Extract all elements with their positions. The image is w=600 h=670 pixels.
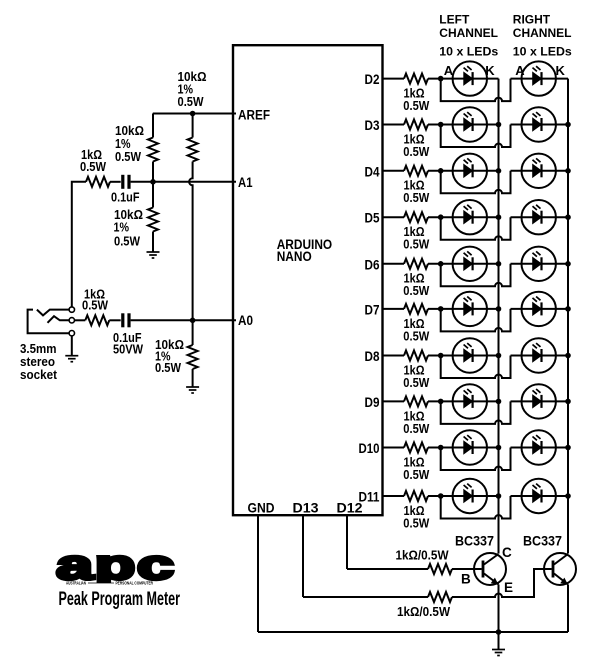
ground below R3 <box>147 252 160 258</box>
svg-text:10 x LEDs: 10 x LEDs <box>513 45 572 59</box>
wire D12 to base resistor <box>347 568 428 570</box>
node right cathode bus dot row D5 <box>565 214 571 220</box>
LED left channel row D4 <box>453 154 487 188</box>
svg-text:NANO: NANO <box>277 249 312 264</box>
node ground junction dot <box>496 629 502 635</box>
svg-text:D8: D8 <box>365 349 380 364</box>
svg-text:0.5W: 0.5W <box>403 99 429 113</box>
Q2 base bar <box>552 561 555 578</box>
wire R7 to Q1 base <box>452 568 482 570</box>
svg-text:1%: 1% <box>115 137 131 151</box>
wire D3 to resistor <box>383 124 405 126</box>
node right cathode bus dot row D6 <box>565 261 571 267</box>
svg-text:10 x LEDs: 10 x LEDs <box>439 45 498 59</box>
resistor D6 series 1k zigzag <box>404 259 428 269</box>
node anode junction dot row D10 <box>438 445 444 451</box>
svg-text:D3: D3 <box>365 118 380 133</box>
Q2 emitter <box>554 574 568 585</box>
wire anode link to right LED row D5 with hop <box>441 217 511 240</box>
resistor R6 1k 0.5W zigzag A0 <box>85 315 109 325</box>
svg-text:D4: D4 <box>365 164 380 179</box>
resistor D10 series 1k zigzag <box>404 443 428 453</box>
node right cathode bus dot row D4 <box>565 168 571 174</box>
wire resistor to left LED row D10 <box>428 447 499 449</box>
wire right LED row D6 <box>511 263 569 265</box>
LED right channel row D11 <box>522 479 556 513</box>
node right cathode bus dot row D9 <box>565 399 571 405</box>
resistor D9 series 1k zigzag <box>404 396 428 406</box>
svg-text:PERSONAL COMPUTER: PERSONAL COMPUTER <box>116 581 154 586</box>
LED right channel row D2 <box>522 61 556 95</box>
node anode junction dot row D11 <box>438 493 444 499</box>
node left cathode bus dot row D6 <box>496 261 502 267</box>
svg-text:D7: D7 <box>365 302 380 317</box>
wire R6 to C2 <box>109 319 120 321</box>
LED right channel row D4 <box>522 154 556 188</box>
node AREF junction dot <box>190 111 196 117</box>
node right cathode bus dot row D8 <box>565 353 571 359</box>
node anode junction dot row D2 <box>438 76 444 82</box>
ground below R5 <box>186 387 199 393</box>
resistor D5 series 1k zigzag <box>404 212 428 222</box>
LED left channel row D3 <box>453 107 487 141</box>
wire sleeve to ground <box>71 336 73 356</box>
node left cathode bus dot row D7 <box>496 306 502 312</box>
svg-text:0.5W: 0.5W <box>403 376 429 390</box>
wire stub to ground symbol <box>498 632 500 649</box>
resistor R2 10k zigzag <box>148 138 158 162</box>
svg-text:AUSTRALIAN: AUSTRALIAN <box>66 581 86 586</box>
svg-text:0.5W: 0.5W <box>80 160 106 174</box>
svg-text:CHANNEL: CHANNEL <box>513 26 572 40</box>
wire GND pin down <box>257 515 259 632</box>
svg-text:RIGHT: RIGHT <box>513 13 551 27</box>
svg-text:3.5mm: 3.5mm <box>20 342 57 356</box>
connector CON1 3.5mm jack body <box>28 310 70 334</box>
svg-text:0.5W: 0.5W <box>115 150 141 164</box>
node anode junction dot row D6 <box>438 261 444 267</box>
svg-text:AREF: AREF <box>238 107 270 122</box>
LED left channel row D9 <box>453 384 487 418</box>
resistor D7 series 1k zigzag <box>404 304 428 314</box>
svg-text:0.5W: 0.5W <box>403 145 429 159</box>
node anode junction dot row D4 <box>438 168 444 174</box>
wire anode link to right LED row D10 with hop <box>441 448 511 471</box>
LED left channel row D5 <box>453 200 487 234</box>
wire D13 down <box>302 515 304 597</box>
transistor Q2 BC337 circle <box>544 553 576 585</box>
LED left channel row D6 <box>453 247 487 281</box>
op-amp U1 Arduino Nano module outline <box>233 45 383 515</box>
node left cathode bus dot row D5 <box>496 214 502 220</box>
wire D11 to resistor <box>383 495 405 497</box>
wire right LED row D7 <box>511 308 569 310</box>
resistor R2 bottom lead <box>152 162 154 182</box>
wire resistor to left LED row D5 <box>428 216 499 218</box>
resistor D4 series 1k zigzag <box>404 166 428 176</box>
LED left channel row D11 <box>453 479 487 513</box>
node A0 junction dot <box>190 318 196 324</box>
wire right LED row D2 <box>511 78 569 80</box>
svg-text:LEFT: LEFT <box>439 13 470 27</box>
resistor R3 10k zigzag <box>148 208 158 232</box>
svg-text:0.1uF: 0.1uF <box>111 191 140 205</box>
wire anode link to right LED row D8 with hop <box>441 356 511 379</box>
node anode junction dot row D3 <box>438 122 444 128</box>
resistor R8 1k/0.5W zigzag <box>428 592 452 602</box>
svg-text:E: E <box>504 580 513 595</box>
node right cathode bus dot row D7 <box>565 306 571 312</box>
resistor R5 10k zigzag <box>188 345 198 369</box>
capacitor C1 0.1uF <box>121 175 130 189</box>
ground symbol main <box>492 650 505 656</box>
wire right LED row D8 <box>511 355 569 357</box>
wire D7 to resistor <box>383 308 405 310</box>
svg-text:0.5W: 0.5W <box>114 235 140 249</box>
resistor R4 10k AREF-A0 top lead <box>192 114 194 138</box>
CON1 ring contact <box>48 316 70 323</box>
svg-text:K: K <box>556 63 566 78</box>
svg-text:0.5W: 0.5W <box>155 361 181 375</box>
node anode junction dot row D7 <box>438 306 444 312</box>
svg-text:CHANNEL: CHANNEL <box>439 26 498 40</box>
wire C1 to A1 pin <box>131 181 236 183</box>
wire anode link to right LED row D2 with hop <box>441 79 511 102</box>
wire resistor to left LED row D11 <box>428 495 499 497</box>
svg-text:0.5W: 0.5W <box>403 191 429 205</box>
wire resistor to left LED row D6 <box>428 263 499 265</box>
svg-text:0.5W: 0.5W <box>82 299 108 313</box>
LED left channel row D10 <box>453 430 487 464</box>
wire D10 to resistor <box>383 447 405 449</box>
svg-text:0.5W: 0.5W <box>403 422 429 436</box>
transistor Q1 BC337 circle <box>474 553 506 585</box>
svg-text:BC337: BC337 <box>455 534 494 549</box>
wire R4 to A0 with hop over A1 <box>189 162 192 321</box>
wire left cathode bus <box>498 79 500 554</box>
LED left channel row D7 <box>453 292 487 326</box>
node left cathode bus dot row D3 <box>496 122 502 128</box>
wire anode link to right LED row D7 with hop <box>441 309 511 332</box>
node right cathode bus dot row D11 <box>565 493 571 499</box>
wire D13 to base resistor <box>303 596 428 598</box>
CON1 tip terminal circle <box>69 307 74 312</box>
svg-text:D13: D13 <box>293 501 320 516</box>
node anode junction dot row D8 <box>438 353 444 359</box>
node A1 junction dot <box>150 179 156 185</box>
Q1 base bar <box>482 561 485 578</box>
resistor R3 10k A1-GND top lead <box>152 182 154 208</box>
capacitor C2 0.1uF 50VW <box>121 313 130 327</box>
Q1 collector <box>484 554 499 565</box>
logo apc <box>56 541 175 588</box>
wire Q2 emitter down <box>567 585 569 633</box>
LED right channel row D6 <box>522 247 556 281</box>
wire right LED row D4 <box>511 170 569 172</box>
wire R1 to C1 <box>110 181 121 183</box>
LED left channel row D2 <box>453 61 487 95</box>
svg-text:D5: D5 <box>365 211 380 226</box>
Q2 collector <box>554 554 568 565</box>
svg-text:D9: D9 <box>365 395 380 410</box>
LED right channel row D3 <box>522 107 556 141</box>
resistor R4 10k zigzag <box>188 138 198 162</box>
svg-text:0.5W: 0.5W <box>178 95 204 109</box>
svg-text:B: B <box>461 572 471 587</box>
wire AREF net <box>153 113 236 115</box>
resistor R1 1k 0.5W zigzag A1 <box>86 177 110 187</box>
wire anode link to right LED row D3 with hop <box>441 125 511 148</box>
svg-text:GND: GND <box>248 501 275 516</box>
wire D9 to resistor <box>383 400 405 402</box>
wire D5 to resistor <box>383 216 405 218</box>
svg-text:1%: 1% <box>114 221 130 235</box>
wire resistor to left LED row D3 <box>428 124 499 126</box>
svg-text:0.5W: 0.5W <box>403 468 429 482</box>
svg-text:C: C <box>502 545 512 560</box>
wire R8 to Q2 base with hop over Q1 emitter <box>452 569 552 597</box>
wire D6 to resistor <box>383 263 405 265</box>
resistor D11 series 1k zigzag <box>404 491 428 501</box>
svg-text:stereo: stereo <box>20 355 55 369</box>
wire D2 to resistor <box>383 78 405 80</box>
svg-text:0.5W: 0.5W <box>403 329 429 343</box>
resistor R5 10k A0-GND top lead <box>192 320 194 345</box>
wire socket tip up to A1 row <box>72 182 86 307</box>
Q1 emitter <box>484 574 499 585</box>
wire anode link to right LED row D11 with hop <box>441 496 511 519</box>
svg-text:50VW: 50VW <box>113 343 143 357</box>
wire right LED row D10 <box>511 447 569 449</box>
svg-text:D6: D6 <box>365 257 380 272</box>
svg-text:1kΩ/0.5W: 1kΩ/0.5W <box>396 549 449 563</box>
CON1 sleeve terminal circle <box>69 331 74 336</box>
svg-text:0.5W: 0.5W <box>403 238 429 252</box>
svg-text:Peak Program Meter: Peak Program Meter <box>59 589 181 610</box>
resistor R7 1k/0.5W zigzag <box>428 564 452 574</box>
wire right LED row D3 <box>511 124 569 126</box>
svg-text:D2: D2 <box>365 72 380 87</box>
svg-text:D10: D10 <box>359 441 380 456</box>
resistor R5 bottom lead <box>192 369 194 387</box>
node left cathode bus dot row D4 <box>496 168 502 174</box>
svg-text:0.5W: 0.5W <box>403 516 429 530</box>
svg-text:A0: A0 <box>238 313 253 328</box>
svg-text:BC337: BC337 <box>523 534 562 549</box>
LED right channel row D8 <box>522 338 556 372</box>
wire Q1 emitter to ground rail <box>498 585 500 633</box>
wire anode link to right LED row D4 with hop <box>441 171 511 194</box>
resistor R2 10k AREF-A1 top lead <box>152 114 154 138</box>
resistor D3 series 1k zigzag <box>404 120 428 130</box>
ground below socket <box>65 356 78 362</box>
CON1 ring terminal circle <box>69 318 74 323</box>
wire resistor to left LED row D9 <box>428 400 499 402</box>
LED right channel row D9 <box>522 384 556 418</box>
wire resistor to left LED row D2 <box>428 78 499 80</box>
wire C2 to A0 pin <box>131 319 236 321</box>
LED right channel row D5 <box>522 200 556 234</box>
wire right LED row D9 <box>511 400 569 402</box>
wire resistor to left LED row D7 <box>428 308 499 310</box>
wire right LED row D5 <box>511 216 569 218</box>
svg-text:10kΩ: 10kΩ <box>115 124 144 138</box>
svg-text:socket: socket <box>20 368 58 382</box>
node right cathode bus dot row D10 <box>565 445 571 451</box>
resistor D8 series 1k zigzag <box>404 351 428 361</box>
wire D8 to resistor <box>383 355 405 357</box>
wire D12 down <box>346 515 348 569</box>
Q2 emitter arrow <box>560 578 568 585</box>
wire D4 to resistor <box>383 170 405 172</box>
resistor R3 bottom lead <box>152 232 154 252</box>
wire right LED row D11 <box>511 495 569 497</box>
svg-text:0.5W: 0.5W <box>403 284 429 298</box>
wire anode link to right LED row D9 with hop <box>441 401 511 424</box>
node left cathode bus dot row D11 <box>496 493 502 499</box>
wire resistor to left LED row D8 <box>428 355 499 357</box>
svg-text:D12: D12 <box>337 501 363 516</box>
wire resistor to left LED row D4 <box>428 170 499 172</box>
node anode junction dot row D5 <box>438 214 444 220</box>
svg-text:1kΩ/0.5W: 1kΩ/0.5W <box>397 605 450 619</box>
node left cathode bus dot row D9 <box>496 399 502 405</box>
node left cathode bus dot row D10 <box>496 445 502 451</box>
svg-text:A1: A1 <box>238 175 253 190</box>
LED right channel row D10 <box>522 430 556 464</box>
wire anode link to right LED row D6 with hop <box>441 264 511 287</box>
LED left channel row D8 <box>453 338 487 372</box>
node right cathode bus dot row D3 <box>565 122 571 128</box>
wire ground rail <box>258 631 568 633</box>
CON1 tip contact <box>37 310 69 316</box>
wire socket ring to R6 <box>75 319 86 321</box>
Q1 emitter arrow <box>491 578 499 585</box>
resistor D2 series 1k zigzag <box>404 74 428 84</box>
node anode junction dot row D9 <box>438 399 444 405</box>
node left cathode bus dot row D8 <box>496 353 502 359</box>
LED right channel row D7 <box>522 292 556 326</box>
wire right cathode bus <box>567 79 569 554</box>
